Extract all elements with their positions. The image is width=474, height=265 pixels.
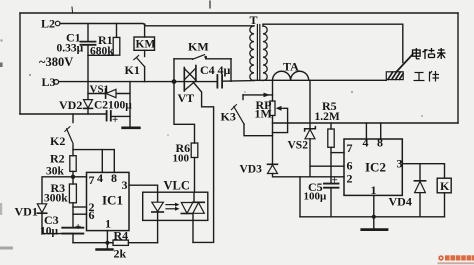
resistor R4 [113,240,158,245]
svg-text:+: + [75,221,81,233]
node L3 terminal [54,80,59,85]
svg-text:1: 1 [371,183,377,197]
wire: pin 1 [106,231,108,243]
wire: pin 6 [73,213,87,215]
wire: TA left output to RP [272,80,274,101]
diode VD1 [37,204,73,234]
svg-text:1M: 1M [255,107,272,121]
svg-text:KM: KM [188,40,209,54]
triac VT [184,66,196,92]
node: pin1/ground junction [105,241,109,245]
svg-text:IC2: IC2 [365,160,386,175]
svg-text:680k: 680k [90,46,114,58]
IC2 pin labels [347,136,403,198]
switch K3 [231,95,272,136]
resistor R1 [88,24,120,56]
svg-text:1.2M: 1.2M [315,111,340,123]
wire: bottom-right rail [300,216,445,218]
svg-text:100: 100 [173,153,190,165]
svg-text:0.33μ: 0.33μ [57,43,84,55]
svg-text:L2: L2 [41,17,55,31]
wire: IC2 pins 4/8 [366,123,380,139]
svg-text:2: 2 [347,172,353,186]
svg-text:VS1: VS1 [90,84,110,96]
svg-text:K: K [440,179,450,193]
wire: secondary top [263,24,403,26]
svg-text:VD1: VD1 [15,205,38,219]
wire: L3 main line [59,81,218,83]
resistor R3 [69,177,76,228]
svg-text:K2: K2 [50,134,65,148]
diode VD2 [84,100,93,109]
transformer T primary winding [250,26,254,81]
ground (IC2) [362,217,387,230]
capacitor C4 [217,75,222,88]
transformer T core [257,25,259,81]
resistor R6 [191,143,198,192]
node: IC2 ground junction [372,215,376,219]
node: R2/R3/pin7 junction [71,175,75,179]
svg-text:7: 7 [347,141,353,155]
relay K box [437,178,451,217]
svg-text:8: 8 [111,171,117,185]
svg-text:TA: TA [283,60,299,74]
svg-text:T: T [250,13,258,27]
svg-text:6: 6 [89,208,95,222]
svg-text:VD2: VD2 [59,98,82,112]
wire: electrode drop [402,24,404,62]
label 工件 (workpiece) [414,71,440,82]
svg-text:300k: 300k [44,193,68,205]
wire: main line after C4 [222,80,254,83]
svg-text:VT: VT [178,91,195,105]
wire: VD1 branch [42,177,73,204]
svg-text:IC1: IC1 [102,193,123,208]
ground (IC1) [97,243,113,250]
zener VS1 [88,89,130,98]
wire: RP bottom to VD3 [272,116,274,165]
svg-text:R4: R4 [114,229,129,243]
wire: bottom rail to R4 [73,242,113,244]
node: junction dot main line [172,79,177,84]
wire: K3 to RP top (arrowed) [243,93,273,98]
VLC coupling arrows [166,203,180,211]
svg-text:K1: K1 [125,63,140,77]
svg-text:C2100μ: C2100μ [94,100,132,112]
zener VS2 [305,127,316,177]
electrode stick [397,55,413,72]
svg-text:100μ: 100μ [304,191,328,203]
wire: R6 feed [174,82,195,143]
svg-text:3: 3 [122,178,128,192]
wire: VS1/C2 right branch to ground [129,82,131,128]
capacitor C2 [107,111,130,121]
wire: IC2 pin 1 [373,195,375,216]
svg-text:8: 8 [377,136,383,150]
svg-text:VLC: VLC [164,179,190,193]
capacitor C3 [62,228,83,243]
wire: secondary bottom to workpiece [254,79,386,81]
wire: pin 2 [73,206,87,208]
wire: IC1 pins 4/8 supply bridge [73,150,114,173]
svg-text:1: 1 [105,217,111,231]
wire: TA right output to VS2 [309,80,311,129]
IC1 pin labels [89,171,128,231]
svg-text:7: 7 [89,173,95,187]
wire: VT gate path [193,83,214,243]
diode VD4 [414,164,425,217]
svg-text:4μ: 4μ [218,63,231,77]
VLC triac [181,192,204,242]
tick mark top border left [71,7,74,13]
workpiece hatched block [386,72,403,80]
svg-text:10μ: 10μ [40,226,59,238]
transformer T secondary winding [263,26,267,81]
svg-text:30k: 30k [46,166,65,178]
wire: pin 7 IC2 [331,152,344,154]
svg-text:4: 4 [363,136,369,150]
capacitor C1 [81,24,96,115]
switch K2 [65,114,73,156]
switch K1 [134,50,145,81]
current transformer TA [273,71,309,80]
node L2 terminal [55,21,60,26]
resistor R2 [70,156,76,172]
svg-text:~380V: ~380V [39,55,73,69]
svg-text:K3: K3 [221,110,236,124]
svg-text:L3: L3 [42,75,56,89]
diode VD3 [268,164,345,177]
svg-text:4: 4 [97,171,103,185]
svg-text:VD4: VD4 [389,195,412,209]
scan artifacts [0,39,423,249]
capacitor C5 [324,184,339,217]
svg-text:R2: R2 [50,152,65,166]
svg-text:+: + [112,114,118,126]
IC2 box [344,139,402,195]
label 电焊条 (welding electrode) [413,48,446,59]
wire: pin2 wire down branch [299,177,301,217]
wire: bottom-right supply rail [273,122,459,124]
wire: IC2 pin 3 [402,164,444,179]
wire: L2 feed [60,24,254,26]
wire: pin 6 IC2 [310,165,344,167]
svg-text:KM: KM [136,39,156,51]
svg-text:VD3: VD3 [240,164,263,176]
watermark logo [438,255,474,264]
ground (C2) [123,127,140,130]
resistor R5 [328,123,334,184]
wire: left border [19,13,21,114]
svg-text:VS2: VS2 [288,140,309,152]
relay coil KM [134,24,155,50]
svg-text:+: + [332,175,338,187]
svg-text:C4: C4 [200,63,215,77]
potentiometer RP [270,101,288,133]
wire: top supply rail [20,12,458,14]
svg-text:2k: 2k [114,247,127,261]
wire: right border [457,13,459,123]
wire: pin 3 to VLC [129,185,158,202]
wire: pin 7 [73,176,87,178]
svg-text:3: 3 [397,157,403,171]
switch KM contact (bypass) [174,55,231,82]
VLC LED [152,202,164,243]
wire: R2 to node [72,171,74,176]
IC1 box [87,172,130,230]
optocoupler VLC box [143,192,208,220]
svg-text:6: 6 [347,159,353,173]
wire: bottom-left rail [20,113,107,115]
tick mark top border [209,1,211,8]
